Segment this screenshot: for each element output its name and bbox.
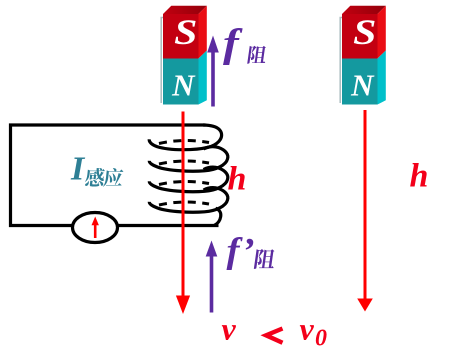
svg-text:0: 0: [315, 326, 327, 350]
red trajectory line left (falling magnet path): [182, 112, 185, 299]
svg-text:v: v: [300, 311, 315, 347]
coil turn 3 (loop with right bulge): [149, 167, 228, 192]
magnet S pole side face: [378, 6, 386, 59]
svg-text:h: h: [228, 161, 247, 198]
svg-text:S: S: [174, 13, 197, 53]
coil turn 4 (loop with right bulge): [149, 188, 228, 213]
magnet top face: [342, 6, 386, 14]
svg-text:S: S: [353, 13, 376, 53]
circuit wire (left loop): [11, 125, 219, 226]
magnet N pole front face: [163, 59, 199, 105]
svg-text:N: N: [350, 68, 375, 103]
meter (current source) ellipse: [73, 213, 118, 243]
magnet N pole side face: [199, 51, 207, 105]
label f: [223, 22, 243, 66]
coil turn 2 (loop with right bulge): [149, 147, 228, 172]
magnet S pole side face: [199, 6, 207, 59]
svg-text:v: v: [222, 311, 237, 347]
svg-text:f’: f’: [227, 232, 255, 271]
magnet N pole front face: [342, 59, 378, 105]
purple arrow f' (up): [210, 256, 214, 313]
magnet ghost outline: [161, 18, 165, 104]
label 阻 (top): [247, 46, 267, 64]
magnet N pole side face: [378, 51, 386, 105]
red arrowhead left: [176, 296, 190, 315]
magnet S pole front face: [163, 14, 199, 59]
red arrow right (falling magnet, free fall): [364, 110, 367, 300]
purple arrow f (up): [211, 50, 215, 107]
coil turn 1 back arc (dashed): [159, 140, 209, 143]
label f': [227, 232, 255, 271]
meter arrow (red, up): [94, 225, 97, 238]
label S: [353, 13, 376, 53]
svg-text:N: N: [171, 68, 196, 103]
magnet top face: [163, 6, 207, 14]
coil turn 2 back arc (dashed): [159, 161, 209, 164]
red arrowhead right: [357, 299, 373, 312]
label 阻 (bottom): [254, 249, 276, 269]
label 感: [84, 168, 105, 186]
coil turn 3 back arc (dashed): [159, 181, 209, 184]
coil bottom connection to wire: [215, 208, 221, 225]
label 应: [103, 168, 124, 187]
label S: [174, 13, 197, 53]
label <: [266, 329, 283, 343]
magnet ghost outline: [340, 18, 344, 104]
coil turn 1 (top hook + front sweep): [149, 125, 221, 150]
svg-text:I: I: [70, 151, 86, 188]
svg-text:h: h: [410, 158, 429, 195]
magnet S pole front face: [342, 14, 378, 59]
coil turn 4 back arc (dashed): [159, 202, 209, 205]
